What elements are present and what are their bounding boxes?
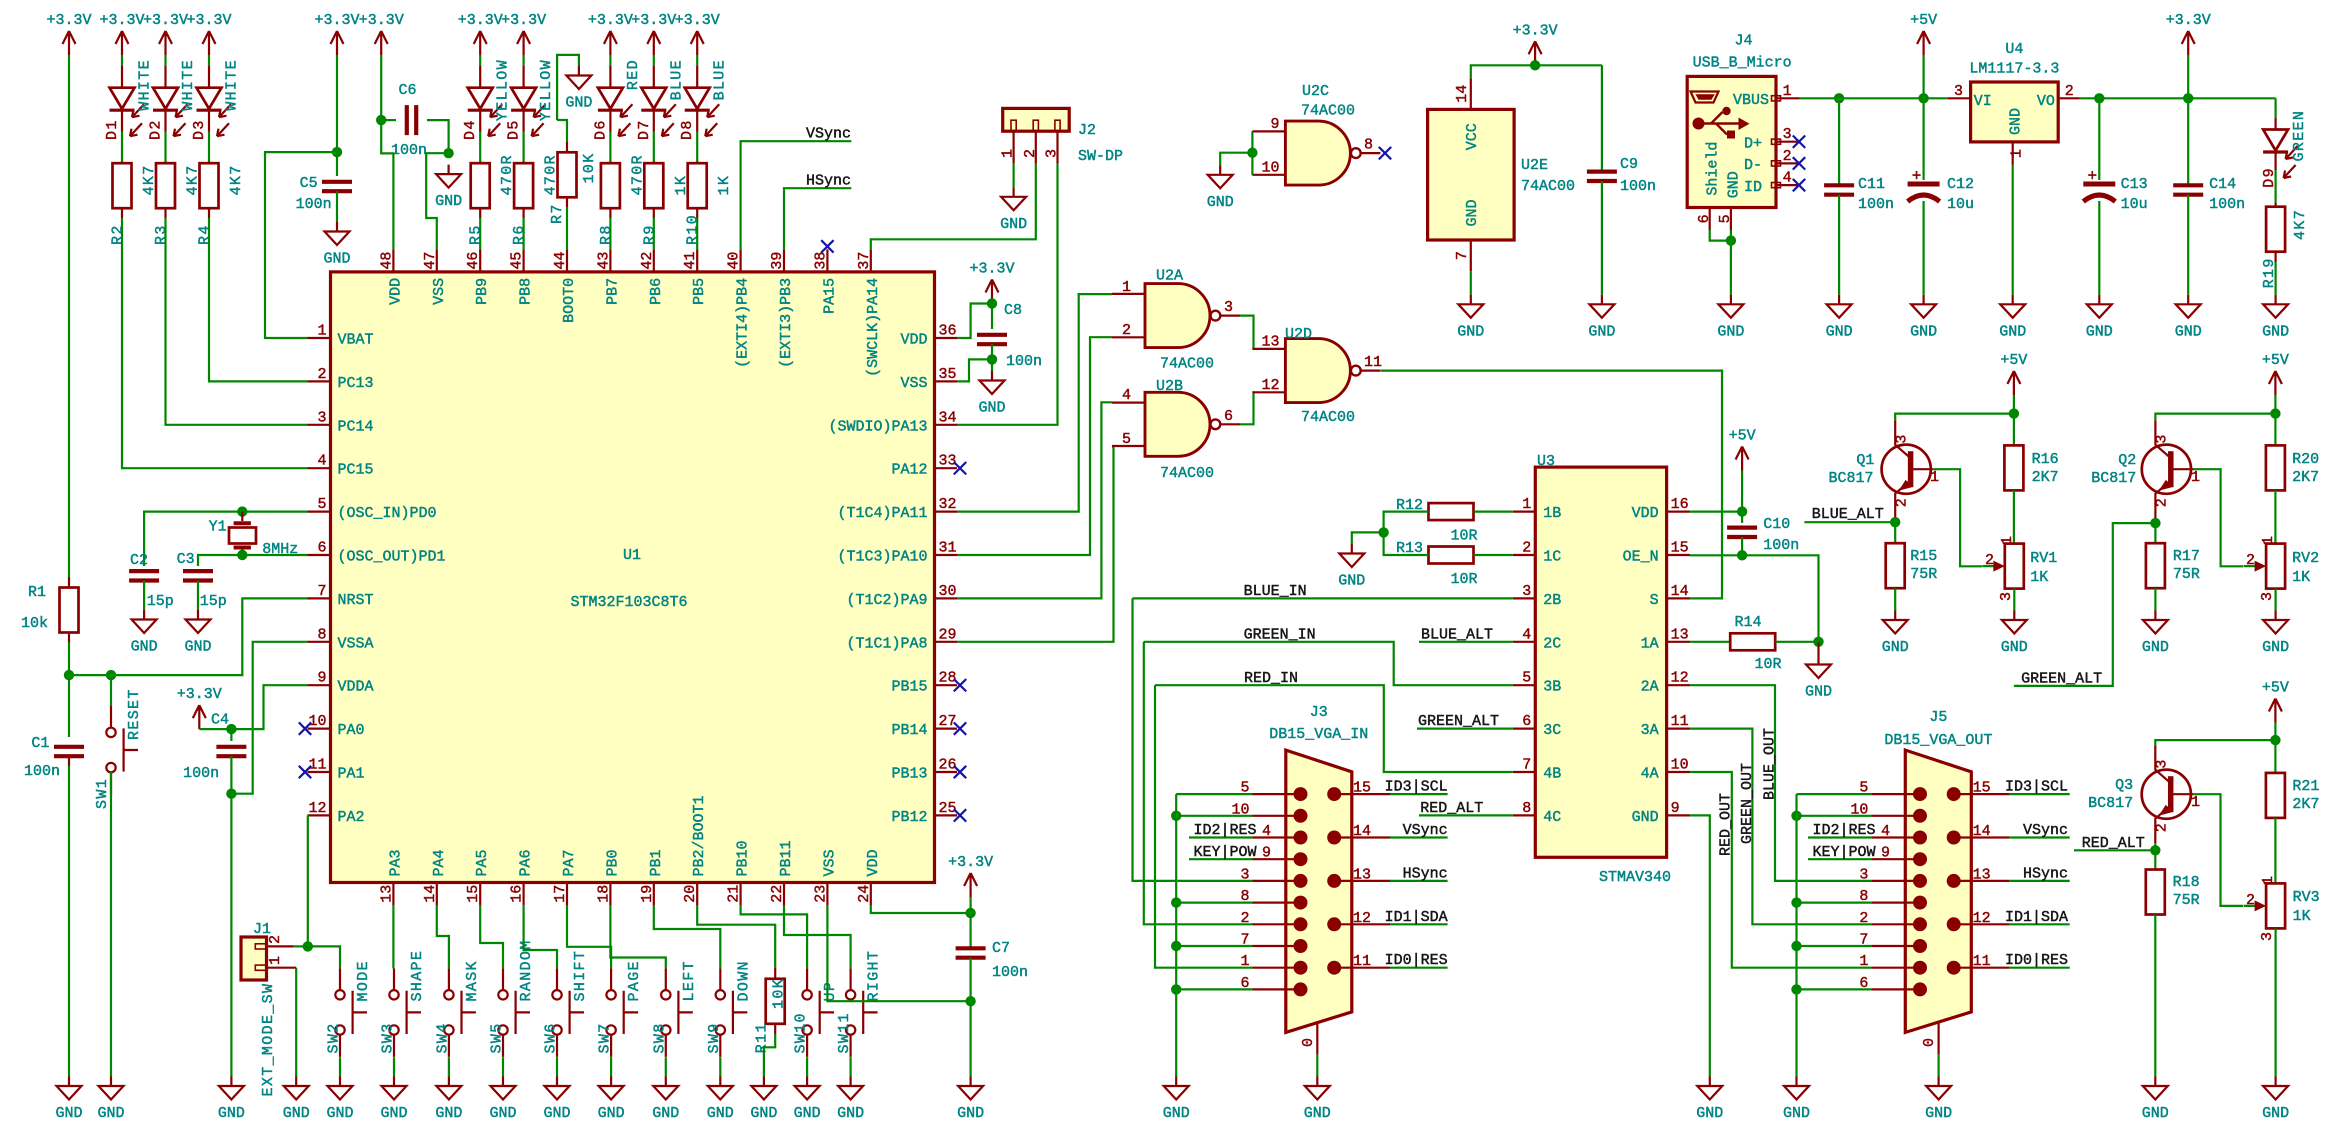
wire R6 to U1 pin 45: [522, 208, 524, 218]
U1 pin 44 BOOT0: [566, 249, 568, 272]
svg-text:1K: 1K: [2292, 569, 2310, 586]
svg-text:WHITE: WHITE: [224, 59, 241, 111]
LED D3 WHITE: [197, 88, 222, 109]
U1 pin 45 PB8: [522, 249, 524, 272]
U2E 74AC00 power unit body: [1428, 109, 1515, 240]
J5 ground bus: [1797, 793, 1872, 795]
svg-text:PB14: PB14: [891, 722, 927, 739]
svg-text:2: 2: [1022, 149, 1039, 158]
junction R1/C1: [64, 670, 74, 680]
svg-text:C11: C11: [1858, 176, 1885, 193]
resistor R6 470R: [522, 162, 524, 164]
svg-text:GND: GND: [2142, 639, 2169, 656]
svg-text:1C: 1C: [1543, 549, 1561, 566]
svg-text:PAGE: PAGE: [626, 960, 643, 1001]
U1 pin 14 PA4: [436, 883, 438, 906]
wire U1 to SW4: [437, 905, 449, 968]
wire C1 down: [68, 675, 70, 737]
wire VSS pin23: [827, 905, 970, 1001]
svg-text:16: 16: [509, 885, 526, 903]
svg-text:GND: GND: [750, 1105, 777, 1122]
ground J1: [284, 1077, 309, 1100]
svg-text:3: 3: [2154, 760, 2171, 769]
ground R11: [751, 1077, 776, 1100]
svg-text:R18: R18: [2173, 874, 2200, 891]
U1 pin 24 VDD: [870, 883, 872, 906]
svg-text:7: 7: [1454, 251, 1471, 260]
ground C8: [991, 359, 993, 371]
svg-text:2: 2: [317, 366, 326, 383]
svg-text:3: 3: [1954, 83, 1963, 100]
junction VDD24: [965, 908, 975, 918]
net label KEY|POW J5: [1808, 858, 1871, 860]
svg-text:(T1C1)PA8: (T1C1)PA8: [846, 635, 927, 652]
svg-text:18: 18: [595, 885, 612, 903]
wire NRST net: [69, 674, 111, 676]
svg-text:29: 29: [939, 626, 957, 643]
svg-text:2: 2: [2154, 498, 2171, 507]
svg-text:15: 15: [1671, 540, 1689, 557]
power flag +3.3V C8: [986, 280, 999, 304]
svg-text:ID: ID: [1744, 179, 1762, 196]
power flag +3.3V D3 column: [203, 31, 216, 55]
svg-text:39: 39: [769, 252, 786, 270]
svg-text:27: 27: [939, 713, 957, 730]
no-connect PA0: [299, 722, 311, 734]
svg-text:PC14: PC14: [338, 418, 374, 435]
wire SW8 to GND: [665, 1057, 667, 1076]
wire U2D out to U3 S: [1381, 371, 1722, 599]
J3 ground bus: [1176, 793, 1252, 795]
svg-text:WHITE: WHITE: [180, 59, 197, 111]
wire SW6 to GND: [556, 1057, 558, 1076]
wire PA8 to U2B pin5: [957, 446, 1114, 641]
svg-text:D5: D5: [506, 119, 523, 140]
svg-text:PB5: PB5: [691, 278, 708, 305]
svg-text:GND: GND: [707, 1105, 734, 1122]
U1 pin 6 (OSC_OUT)PD1: [308, 554, 331, 556]
J3 pin 11 label ID0|RES: [1334, 967, 1390, 969]
J3 shell pin 0: [1316, 1023, 1318, 1055]
U3 pin 15 OE_N: [1667, 554, 1691, 556]
svg-text:4K7: 4K7: [2292, 209, 2309, 240]
J5 pin 12 label ID1|SDA: [1954, 923, 2009, 925]
U1 pin 38 PA15: [826, 249, 828, 272]
wire U1 to SW3: [392, 905, 394, 968]
junction: [1791, 984, 1801, 994]
svg-text:J4: J4: [1734, 33, 1752, 50]
svg-text:D2: D2: [148, 119, 165, 140]
power flag +3.3V C7: [964, 873, 977, 897]
svg-text:16: 16: [1671, 496, 1689, 513]
svg-text:SW7: SW7: [597, 1022, 614, 1053]
transistor Q2 BC817: [2142, 445, 2191, 494]
svg-text:2: 2: [2065, 83, 2074, 100]
svg-text:2K7: 2K7: [2292, 796, 2319, 813]
svg-text:13: 13: [1353, 866, 1371, 883]
svg-text:U1: U1: [623, 547, 641, 564]
svg-text:+3.3V: +3.3V: [675, 12, 720, 29]
U1 pin 4 PC15: [308, 467, 331, 469]
wire +3.3V to C6: [380, 55, 382, 120]
svg-text:12: 12: [308, 800, 326, 817]
svg-text:R16: R16: [2032, 451, 2059, 468]
junction: [1791, 941, 1801, 951]
transistor Q1 BC817: [1882, 445, 1931, 494]
wire VBAT: [265, 152, 337, 338]
svg-text:5: 5: [1522, 670, 1531, 687]
svg-text:1: 1: [267, 956, 284, 965]
svg-text:GREEN_IN: GREEN_IN: [1244, 626, 1316, 643]
resistor R3 4K7: [164, 162, 166, 164]
svg-text:GND: GND: [2175, 323, 2202, 340]
wire D7 cathode: [653, 110, 655, 131]
svg-text:D8: D8: [679, 119, 696, 140]
svg-text:2C: 2C: [1543, 635, 1561, 652]
net label BLUE_IN: [1133, 597, 1513, 599]
wire D9 to R19: [2275, 152, 2277, 170]
svg-text:(T1C3)PA10: (T1C3)PA10: [837, 549, 927, 566]
svg-text:GND: GND: [2001, 639, 2028, 656]
ground OE_N R14: [1817, 642, 1819, 655]
wire VBUS +5V rail: [1800, 97, 1948, 99]
svg-text:2: 2: [1122, 322, 1131, 339]
svg-text:D3: D3: [191, 119, 208, 140]
svg-text:PB8: PB8: [518, 278, 535, 305]
U1 pin 39 (EXTI3)PB3: [783, 249, 785, 272]
svg-text:1: 1: [2008, 149, 2025, 158]
wire VDD pin48: [381, 120, 393, 249]
junction C14: [2183, 93, 2193, 103]
U1 pin 42 PB6: [653, 249, 655, 272]
ground BOOT0: [566, 66, 591, 89]
wire Q3 base to RV3 wiper: [2193, 794, 2243, 906]
svg-text:GREEN_ALT: GREEN_ALT: [1418, 713, 1499, 730]
no-connect D+: [1793, 136, 1805, 148]
svg-text:3: 3: [1894, 435, 1911, 444]
svg-text:PB12: PB12: [891, 809, 927, 826]
capacitor C6 100n: [381, 119, 396, 121]
svg-text:+5V: +5V: [1729, 428, 1756, 445]
svg-text:5: 5: [1717, 214, 1734, 223]
wire J3 gnd pin row 5: [1176, 901, 1252, 903]
svg-text:PA15: PA15: [821, 278, 838, 314]
wire R1 to junction: [68, 633, 70, 643]
svg-text:100n: 100n: [24, 763, 60, 780]
J3 pin 13 label HSync: [1334, 880, 1390, 882]
svg-text:R14: R14: [1734, 614, 1761, 631]
wire J5 gnd row 7: [1797, 945, 1872, 947]
ground RV2: [2263, 611, 2288, 634]
svg-text:PB7: PB7: [604, 278, 621, 305]
wire C3 to GND: [197, 581, 199, 611]
J3 pin 8: [1253, 901, 1301, 903]
wire Q1 collector rail: [1895, 414, 2014, 421]
connector J3 DB15_VGA_IN body: [1286, 750, 1352, 1032]
junction Q1 emitter: [1894, 518, 1896, 543]
svg-text:PA2: PA2: [338, 809, 365, 826]
ground C11: [1827, 295, 1852, 318]
wire VDDA pin9: [231, 685, 307, 729]
svg-text:3: 3: [1783, 126, 1792, 143]
svg-text:13: 13: [1973, 866, 1991, 883]
svg-text:8: 8: [1522, 800, 1531, 817]
wire VSS pin47: [426, 153, 448, 249]
U3 pin 3 2B: [1513, 597, 1536, 599]
svg-text:Q2: Q2: [2118, 452, 2136, 469]
svg-text:USB_B_Micro: USB_B_Micro: [1693, 55, 1792, 72]
ground R12 R13: [1339, 544, 1364, 567]
svg-text:5: 5: [1122, 431, 1131, 448]
net label GREEN_ALT at 3C: [1417, 727, 1513, 729]
wire +3.3V to junction: [969, 897, 971, 913]
J4 pin5 GND: [1730, 208, 1732, 231]
potentiometer RV1 1K: [2005, 544, 2024, 589]
svg-text:D6: D6: [592, 119, 609, 140]
svg-text:SW2: SW2: [326, 1022, 343, 1053]
svg-text:VO: VO: [2037, 93, 2055, 110]
svg-text:1A: 1A: [1641, 635, 1659, 652]
U3 pin 12 2A: [1667, 684, 1691, 686]
svg-text:R7: R7: [549, 203, 566, 224]
svg-text:R9: R9: [641, 224, 658, 245]
wire SW11 to GND: [849, 1057, 851, 1076]
power flag +3.3V C5: [331, 31, 344, 55]
svg-text:+: +: [2087, 168, 2097, 186]
svg-text:J2: J2: [1078, 122, 1096, 139]
svg-text:6: 6: [1696, 214, 1713, 223]
resistor R7 10K BOOT0: [557, 120, 567, 142]
no-connect D-: [1793, 157, 1805, 169]
wire U3 GND pin9: [1690, 815, 1710, 1076]
resistor R4 4K7: [208, 162, 210, 164]
svg-text:R21: R21: [2292, 778, 2319, 795]
nand gate U2C 74AC00 unused: [1285, 121, 1350, 185]
wire 1A pin13 to R14: [1690, 641, 1730, 643]
svg-text:VCC: VCC: [1464, 123, 1481, 150]
wire +3.3V to C5 junction: [336, 55, 338, 152]
wire Q1 base to RV1 wiper: [1933, 469, 1982, 566]
resistor R21 2K7: [2274, 740, 2276, 773]
ground C1: [57, 1077, 82, 1100]
resistor R14 10R: [1730, 633, 1775, 650]
svg-text:PA3: PA3: [387, 849, 404, 876]
wire to SW2: [308, 946, 340, 968]
svg-text:3: 3: [317, 409, 326, 426]
power flag +3.3V D4 column: [474, 31, 487, 55]
svg-text:DB15_VGA_OUT: DB15_VGA_OUT: [1884, 732, 1992, 749]
U1 pin 22 PB11: [783, 883, 785, 906]
svg-text:EXT_MODE_SW: EXT_MODE_SW: [260, 983, 277, 1097]
ground SW4: [436, 1077, 461, 1100]
switch SW11 RIGHT: [849, 968, 851, 990]
svg-text:+3.3V: +3.3V: [186, 12, 231, 29]
resistor R17 75R: [2146, 543, 2165, 588]
U3 pin 14 S: [1667, 597, 1691, 599]
svg-text:4B: 4B: [1543, 766, 1561, 783]
U1 pin 17 PA7: [566, 883, 568, 906]
U1 pin 34 (SWDIO)PA13: [935, 424, 958, 426]
ground J5 shell: [1926, 1077, 1951, 1100]
svg-text:+3.3V: +3.3V: [99, 12, 144, 29]
svg-text:HSync: HSync: [2023, 865, 2068, 882]
net label GREEN_ALT wire: [2014, 523, 2155, 686]
wire PA10 to U2A pin2: [957, 337, 1112, 555]
wire R13 left: [1384, 532, 1429, 555]
U1 pin 23 VSS: [826, 883, 828, 906]
svg-text:MODE: MODE: [355, 960, 372, 1001]
U3 pin 11 3A: [1667, 727, 1691, 729]
svg-text:ID2|RES: ID2|RES: [1812, 822, 1875, 839]
wire VCC rail: [1471, 65, 1602, 78]
svg-text:+5V: +5V: [2000, 352, 2027, 369]
J2 pin 2 wire SWCLK: [1035, 131, 1037, 164]
ground R18: [2143, 1077, 2168, 1100]
ground C14: [2176, 295, 2201, 318]
ground C2: [132, 610, 157, 633]
potentiometer RV3 1K: [2266, 883, 2285, 928]
U4 pin3 VI: [1948, 97, 1971, 99]
svg-text:31: 31: [939, 540, 957, 557]
svg-text:J3: J3: [1310, 704, 1328, 721]
svg-text:20: 20: [682, 885, 699, 903]
wire R12 to pin1: [1474, 511, 1513, 513]
svg-text:VBUS: VBUS: [1733, 92, 1769, 109]
wire D3 cathode to resistor: [208, 110, 210, 131]
wire SW7 to GND: [610, 1057, 612, 1076]
svg-text:ID0|RES: ID0|RES: [1385, 952, 1448, 969]
svg-text:VBAT: VBAT: [338, 332, 374, 349]
svg-text:12: 12: [1671, 670, 1689, 687]
wire VDD pin24: [871, 905, 971, 913]
svg-text:(SWCLK)PA14: (SWCLK)PA14: [865, 278, 882, 377]
wire C9: [1601, 65, 1603, 171]
junction: [1171, 897, 1181, 907]
svg-text:75R: 75R: [2173, 892, 2200, 909]
junction R21 top: [2270, 735, 2280, 745]
svg-text:GND: GND: [1304, 1105, 1331, 1122]
svg-text:3: 3: [1224, 299, 1233, 316]
U3 pin 5 3B: [1513, 684, 1536, 686]
svg-text:SHIFT: SHIFT: [572, 950, 589, 1002]
svg-text:C6: C6: [398, 82, 416, 99]
transistor Q3 BC817: [2142, 770, 2191, 819]
svg-text:25: 25: [939, 800, 957, 817]
J5 pin 15 label ID3|SCL: [1954, 793, 2009, 795]
U3 pin 4 2C: [1513, 641, 1536, 643]
svg-text:9: 9: [1881, 845, 1890, 862]
wire C4 to GND: [230, 794, 232, 1077]
svg-text:PB11: PB11: [778, 840, 795, 876]
svg-text:R3: R3: [153, 224, 170, 245]
U1 pin 36 VDD: [935, 337, 958, 339]
svg-text:PA5: PA5: [474, 849, 491, 876]
power flag +3.3V D8 column: [691, 31, 704, 55]
svg-text:14: 14: [1973, 823, 1991, 840]
svg-text:+3.3V: +3.3V: [948, 854, 993, 871]
svg-text:46: 46: [465, 252, 482, 270]
U1 pin 41 PB5: [696, 249, 698, 272]
svg-text:Q3: Q3: [2115, 777, 2133, 794]
svg-text:100n: 100n: [2209, 196, 2245, 213]
ground SW1: [99, 1077, 124, 1100]
wire SW1 to GND: [110, 772, 112, 1076]
wire Q2 base to RV2 wiper: [2193, 469, 2243, 566]
ground U2E: [1458, 295, 1483, 318]
svg-text:SW6: SW6: [543, 1022, 560, 1053]
svg-text:13: 13: [1261, 334, 1279, 351]
wire R20 to RV2: [2274, 490, 2276, 543]
wire SW5 to GND: [502, 1057, 504, 1076]
svg-text:+3.3V: +3.3V: [588, 12, 633, 29]
svg-text:PA12: PA12: [891, 462, 927, 479]
U1 pin 33 PA12: [935, 467, 958, 469]
wire SW10 to GND: [806, 1057, 808, 1076]
svg-text:RV3: RV3: [2293, 889, 2320, 906]
svg-text:GND: GND: [218, 1105, 245, 1122]
wire 4A RED_OUT: [1690, 772, 1871, 968]
svg-text:0: 0: [1921, 1038, 1938, 1047]
svg-text:35: 35: [939, 366, 957, 383]
J3 pin 1: [1253, 967, 1301, 969]
wire R16 to RV1: [2013, 490, 2015, 543]
svg-text:10u: 10u: [2121, 196, 2148, 213]
junction C10 bottom: [1741, 537, 1743, 555]
U1 pin 18 PB0: [609, 883, 611, 906]
net label ID2|RES J3: [1189, 836, 1253, 838]
no-connect PB12: [954, 809, 966, 821]
svg-text:KEY|POW: KEY|POW: [1193, 844, 1256, 861]
connector J1 body: [241, 937, 267, 980]
ground U3: [1697, 1077, 1722, 1100]
svg-text:VSS: VSS: [821, 849, 838, 876]
wire D7 anode: [653, 55, 655, 66]
svg-text:GND: GND: [957, 1105, 984, 1122]
U3 pin 9 GND: [1667, 814, 1691, 816]
svg-text:PC15: PC15: [338, 462, 374, 479]
capacitor C3 15p: [183, 571, 213, 580]
svg-text:GND: GND: [1588, 323, 1615, 340]
J3 pin 10: [1253, 815, 1301, 817]
svg-text:1: 1: [1000, 149, 1017, 158]
svg-text:3: 3: [1998, 592, 2015, 601]
svg-text:+3.3V: +3.3V: [2166, 12, 2211, 29]
ground SW8: [653, 1077, 678, 1100]
power flag +3.3V out: [2182, 31, 2195, 55]
junction C5/VBAT: [332, 147, 342, 157]
resistor R15 75R: [1886, 543, 1905, 588]
ground J4: [1718, 295, 1743, 318]
svg-text:14: 14: [1454, 85, 1471, 103]
svg-text:VDD: VDD: [865, 849, 882, 876]
svg-text:PB10: PB10: [735, 840, 752, 876]
svg-text:3: 3: [1522, 583, 1531, 600]
switch SW6 SHIFT: [556, 968, 558, 990]
svg-text:S: S: [1650, 592, 1659, 609]
U1 pin 28 PB15: [935, 684, 958, 686]
wire R12 left: [1384, 512, 1429, 533]
svg-text:74AC00: 74AC00: [1160, 465, 1214, 482]
U3 pin 16 VDD: [1667, 511, 1691, 513]
svg-text:+3.3V: +3.3V: [314, 12, 359, 29]
wire OE_N pin15: [1690, 555, 1818, 642]
U1 pin 48 VDD: [392, 249, 394, 272]
resistor R12 10R: [1429, 503, 1474, 520]
svg-text:BLUE: BLUE: [712, 59, 729, 100]
capacitor C14 100n: [2187, 98, 2189, 185]
ground C9: [1589, 295, 1614, 318]
U1 pin 11 PA1: [308, 771, 331, 773]
